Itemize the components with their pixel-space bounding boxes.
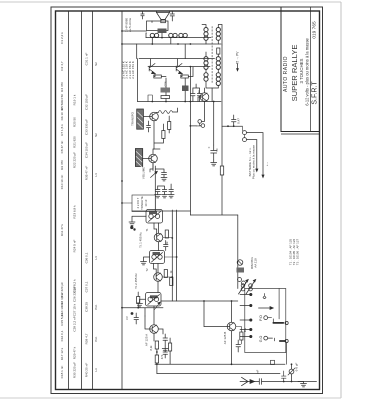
svg-text:C33 330 pF: C33 330 pF: [85, 119, 89, 135]
switch contact PO: [264, 316, 268, 320]
AGC diode D1: [237, 260, 243, 266]
capacitor C9 to ground: [155, 169, 166, 178]
node dots IF buses: [171, 237, 177, 278]
svg-text:R4 50: R4 50: [60, 94, 64, 103]
wire preamp emitter: [150, 163, 153, 172]
svg-text:ou 5 ohms: ou 5 ohms: [128, 17, 132, 32]
svg-text:L4: L4: [94, 173, 98, 177]
switch coil squiggle: [263, 294, 266, 299]
switch terminal GO: [285, 339, 288, 342]
IF can 2: [150, 251, 165, 264]
battery label: [248, 145, 269, 180]
label TI2: [134, 273, 138, 289]
svg-text:6-8 pF: 6-8 pF: [295, 362, 299, 371]
svg-text:AUTO RADIO: AUTO RADIO: [283, 56, 289, 92]
svg-text:T.I.1 455 Kc: T.I.1 455 Kc: [139, 232, 143, 248]
oscillator label: [223, 332, 227, 345]
output transistor Q1: [149, 59, 155, 74]
IF transistor T7: [154, 273, 163, 282]
battery wires: [247, 133, 264, 176]
tuner block outline: [245, 289, 286, 353]
svg-text:C26 220 pF: C26 220 pF: [73, 286, 77, 302]
IF transistor T6: [154, 233, 163, 242]
svg-text:R20 50: R20 50: [73, 117, 77, 127]
wire bus y66.6: [148, 66, 210, 68]
svg-text:C37 0,1: C37 0,1: [85, 281, 89, 292]
svg-text:S2: S2: [94, 62, 98, 66]
AGC junction circles: [238, 278, 242, 282]
transistor list label: [122, 61, 136, 79]
svg-text:C34 100 pF: C34 100 pF: [85, 142, 89, 158]
svg-text:R35 47 nF: R35 47 nF: [85, 166, 89, 181]
wires IF2: [154, 264, 159, 293]
IF bus top joins: [132, 210, 190, 212]
wire emitters join: [154, 67, 193, 77]
coil L5 winding chain: [204, 73, 208, 77]
node dots battery: [227, 125, 235, 127]
emitter resistor squiggle R8: [159, 111, 173, 114]
node dots left bus: [121, 30, 123, 45]
node dots top bus: [151, 37, 191, 45]
ground C6: [211, 160, 217, 166]
svg-text:R24 5 nF: R24 5 nF: [73, 240, 77, 253]
speaker label: [125, 17, 133, 32]
svg-text:R19 1 k: R19 1 k: [73, 94, 77, 105]
wires preamp: [153, 149, 160, 171]
capacitor C7: [191, 88, 195, 102]
wire osc vertical: [203, 301, 205, 327]
svg-text:10 nF: 10 nF: [144, 199, 148, 206]
wire bus y37.6: [146, 37, 211, 39]
svg-text:TRANSFO: TRANSFO: [131, 111, 135, 126]
svg-text:Pot.: Pot.: [94, 304, 98, 310]
parts table column line 3: [92, 11, 94, 390]
border frame inner: [56, 11, 320, 390]
resistor R18: [164, 270, 167, 278]
capacitor C2 at top: [170, 12, 174, 22]
svg-text:R29 47 k: R29 47 k: [73, 346, 77, 359]
svg-text:+ −: + −: [265, 162, 269, 167]
ground C13: [168, 195, 174, 198]
emitter resistor R12: [181, 75, 189, 78]
svg-text:P.O: P.O: [259, 315, 263, 321]
switch bar GO (thick): [280, 340, 285, 342]
svg-text:CV: CV: [125, 316, 129, 320]
svg-text:Pot.: Pot.: [94, 336, 98, 342]
switch terminal PO: [285, 321, 288, 324]
wire to R26: [236, 327, 242, 345]
svg-text:R15 5,6 k: R15 5,6 k: [60, 312, 64, 326]
bias rect (dark): [182, 86, 189, 92]
node dots feedback bus: [151, 101, 214, 103]
node dot: [190, 66, 192, 127]
wire bus y44: [122, 43, 221, 45]
wire driver collector drop: [148, 95, 152, 102]
driver transformer TR3: [137, 109, 144, 129]
series capacitor C33: [259, 379, 261, 385]
svg-text:C27 15 k: C27 15 k: [73, 303, 77, 316]
svg-text:R7 1,5 k: R7 1,5 k: [60, 124, 64, 136]
svg-text:S.F.R.T: S.F.R.T: [312, 81, 319, 105]
AGC vertical: [237, 215, 239, 289]
svg-text:R9 470: R9 470: [60, 160, 64, 170]
wires through thermistor: [165, 78, 167, 102]
coil interstage leads: [206, 40, 218, 56]
PV arrow label: [236, 51, 240, 65]
scan edge bottom: [0, 397, 341, 399]
svg-text:AA 119: AA 119: [254, 258, 258, 268]
svg-text:CTN: CTN: [164, 81, 168, 86]
output transformer TR4 box: [147, 21, 169, 31]
taps to IF buses: [162, 238, 176, 278]
svg-text:Plus ou moins à la masse: Plus ou moins à la masse: [251, 145, 255, 180]
wire battery feed: [222, 125, 242, 127]
svg-text:C1 2,2 k: C1 2,2 k: [60, 32, 64, 44]
trimmer C34: [289, 369, 294, 374]
resistor R21: [137, 297, 140, 304]
coil L6 winding chain: [216, 73, 220, 77]
IF can 3: [146, 293, 162, 307]
wires converter: [145, 306, 163, 341]
base lead T4: [143, 116, 152, 118]
svg-text:R39 4,7: R39 4,7: [85, 333, 89, 344]
wire left drop: [137, 33, 147, 59]
oscillator coil L1 winding chain: [204, 28, 208, 32]
svg-text:R23 6,8 k: R23 6,8 k: [73, 205, 77, 219]
terminal circle P1: [198, 120, 202, 124]
svg-text:6-12 volts - plus ou moins à l: 6-12 volts - plus ou moins à la masse: [305, 37, 310, 105]
tuner inner wires: [279, 289, 287, 365]
junction blob: [130, 226, 136, 231]
output transistor Q2: [176, 59, 182, 74]
wires IF1: [154, 223, 159, 251]
capacitor C8: [197, 88, 201, 102]
parts table column line 4: [121, 11, 123, 390]
node dots converter left: [121, 180, 139, 309]
secondary winding a: [150, 33, 154, 37]
svg-text:R17 12 k: R17 12 k: [60, 347, 64, 360]
transistor list label: [289, 238, 300, 265]
svg-text:2 x AC 153 K: 2 x AC 153 K: [131, 61, 135, 79]
capacitor C24: [163, 349, 168, 359]
wires R24: [169, 338, 171, 364]
svg-text:S2: S2: [94, 133, 98, 137]
svg-text:R40 20 nF: R40 20 nF: [85, 363, 89, 378]
svg-text:C38 25: C38 25: [85, 302, 89, 312]
capacitor C1 at top: [141, 12, 144, 20]
svg-text:C36 0,1: C36 0,1: [85, 252, 89, 263]
ground C11: [162, 195, 168, 198]
battery terminal B1: [243, 131, 247, 135]
svg-text:C8 47 nF: C8 47 nF: [60, 141, 64, 154]
svg-text:C28 2,2 nF: C28 2,2 nF: [73, 316, 77, 331]
wire y307.7: [122, 292, 163, 316]
scan edge right: [340, 2, 342, 398]
svg-text:L3: L3: [94, 368, 98, 372]
wire verticals between buses: [152, 33, 185, 59]
svg-text:C10 10 nF: C10 10 nF: [60, 175, 64, 190]
svg-text:22k: 22k: [243, 327, 247, 332]
wire chains to bus: [211, 88, 213, 102]
wire bus y364: [155, 363, 285, 365]
tone box label: [136, 196, 148, 210]
wire bus y58.6: [139, 58, 215, 60]
thermistor TH1 (hatched): [161, 88, 171, 93]
wires oscillator: [204, 301, 232, 364]
resistor R19: [170, 278, 173, 286]
base lead T5: [143, 158, 152, 160]
svg-text:C32 150 pF: C32 150 pF: [85, 94, 89, 110]
driver transformer label: [131, 111, 135, 126]
scan edge top: [0, 1, 341, 3]
svg-text:R22 220 pF: R22 220 pF: [73, 152, 77, 168]
node dots bias: [156, 351, 158, 365]
ground C23: [162, 346, 168, 352]
secondary winding b: [169, 33, 173, 37]
IF bus vertical a: [171, 210, 173, 301]
AGC label: [250, 257, 258, 270]
volume label: [142, 167, 146, 179]
svg-text:R3 470: R3 470: [60, 82, 64, 92]
capacitor C12: [147, 121, 151, 132]
battery terminal leads: [242, 126, 244, 137]
oscillator coil L2 winding chain: [216, 28, 220, 32]
svg-text:C31 1 nF: C31 1 nF: [85, 53, 89, 66]
coil top leads: [202, 25, 222, 46]
misc tiny labels: [125, 81, 260, 374]
wires bias rect: [184, 78, 186, 102]
resistor R14: [217, 48, 220, 54]
svg-text:0,47: 0,47: [237, 118, 241, 124]
electrolytic C6: [211, 145, 217, 160]
wire to terminals: [190, 125, 196, 127]
resistor R13: [161, 96, 170, 99]
label GO: [259, 336, 263, 343]
ground C9: [161, 178, 167, 181]
svg-text:C2 4,7: C2 4,7: [60, 61, 64, 70]
svg-text:C16 0,1: C16 0,1: [60, 330, 64, 341]
mixer transistor T3: [200, 93, 209, 102]
wafer contact stubs: [240, 293, 252, 337]
wire bus y373.6: [157, 373, 280, 375]
wire speaker return: [122, 30, 147, 32]
supply vertical x222 lower: [190, 175, 237, 215]
switch contact GO: [264, 336, 268, 340]
junction blob2: [131, 312, 134, 315]
wires driver stage: [154, 116, 169, 149]
wire long vertical feed: [189, 67, 191, 215]
parts table column line 2: [81, 11, 83, 390]
svg-text:R21 820: R21 820: [73, 136, 77, 148]
coil core dashed: [211, 27, 213, 85]
wire speaker to transformer: [152, 20, 161, 23]
capacitor C10 to ground: [156, 186, 161, 195]
converter label: [145, 334, 149, 346]
switch arm wire: [259, 307, 272, 309]
wire caps top tie: [193, 84, 200, 88]
coil L4 winding chain: [216, 57, 220, 61]
wire electrolytic feed: [213, 102, 215, 146]
resistor R15: [220, 166, 223, 175]
ground IF1: [129, 216, 146, 225]
capacitor C13 to ground: [169, 184, 174, 195]
wires mixer T3: [198, 88, 205, 121]
svg-text:G.O: G.O: [259, 336, 263, 343]
svg-text:3 TOUCHES: 3 TOUCHES: [299, 58, 304, 83]
svg-text:AF 125 B: AF 125 B: [223, 332, 227, 345]
resistor R22: [155, 341, 158, 349]
parts table column line 1: [68, 11, 70, 390]
driver transistor T4: [150, 112, 159, 121]
antenna symbol: [240, 377, 248, 385]
svg-text:SUPER RALLYE: SUPER RALLYE: [290, 45, 299, 102]
resistor R10: [168, 122, 171, 130]
node dots osc: [203, 300, 232, 365]
converter transistor T8: [150, 325, 159, 334]
terminal circle P2: [201, 124, 205, 128]
volume potentiometer R5: [154, 166, 156, 212]
resistor R9: [162, 131, 165, 139]
svg-text:T3 . 10106 . AF 127: T3 . 10106 . AF 127: [296, 238, 300, 265]
wire bus y301: [161, 300, 238, 302]
capacitor C11 to ground: [158, 186, 167, 195]
speaker LS1: [157, 13, 170, 20]
supply vertical x222 upper: [221, 45, 223, 166]
ground IF2: [141, 257, 150, 265]
wires bias chain: [156, 349, 158, 374]
switch bar PO (thick): [273, 322, 283, 324]
svg-text:AF 125 A: AF 125 A: [145, 334, 149, 346]
IF bus vertical b: [176, 210, 178, 301]
wire x122 tap: [122, 202, 132, 204]
svg-text:1nF: 1nF: [256, 369, 260, 374]
antenna wire: [248, 381, 317, 383]
ground IF3: [137, 299, 146, 307]
svg-text:8,2k: 8,2k: [149, 345, 153, 351]
oscillator transistor T9: [227, 322, 236, 331]
svg-text:T.I.2 455 Kc: T.I.2 455 Kc: [134, 273, 138, 289]
resistor R16: [165, 230, 168, 238]
title block frame: [281, 7, 320, 134]
tone control box: [132, 195, 155, 212]
svg-text:L4: L4: [94, 256, 98, 260]
coil bottom leads: [206, 69, 218, 88]
svg-text:45 → PV: 45 → PV: [236, 51, 240, 65]
wire bus y101.5: [138, 101, 222, 103]
IF can 1: [146, 210, 163, 224]
tuning arrow can3: [155, 303, 160, 310]
svg-text:R6 10 nF: R6 10 nF: [60, 108, 64, 121]
resistor R30: [271, 360, 275, 364]
svg-text:+: +: [208, 146, 210, 150]
svg-text:019 765: 019 765: [312, 21, 318, 39]
ground C10: [155, 195, 161, 198]
AGC hatched box: [237, 268, 245, 273]
svg-text:R11 47 k: R11 47 k: [60, 223, 64, 236]
label PO: [259, 315, 263, 321]
border frame outer: [51, 7, 323, 394]
emitter resistor R11: [154, 75, 162, 78]
node dots antenna: [283, 363, 293, 382]
label TI1: [139, 232, 143, 248]
label 6-8 pF: [295, 362, 299, 371]
capacitor C5 0.47uF: [232, 115, 237, 126]
svg-text:R30 220 pF: R30 220 pF: [73, 362, 77, 378]
osc tuning coil L7: [241, 284, 245, 288]
capacitor C16: [164, 241, 169, 251]
resistor R26: [240, 332, 243, 340]
capacitor C27: [236, 340, 241, 352]
coil L3 winding chain: [204, 57, 208, 61]
preamp transistor T5: [149, 154, 158, 163]
resistor R23: [155, 355, 158, 363]
secondary winding c: [179, 33, 183, 37]
wire left drop to bus: [137, 59, 139, 102]
preamp transformer TR2: [135, 149, 142, 167]
capacitor C23: [163, 334, 168, 346]
capacitor C22: [134, 313, 139, 324]
battery terminal B2: [243, 138, 247, 142]
output transformer winding (hatched): [158, 29, 167, 34]
svg-text:C18 1 nF: C18 1 nF: [60, 366, 64, 379]
svg-text:470: 470: [160, 354, 164, 359]
resistor R24: [169, 343, 172, 351]
capacitor C35: [282, 371, 287, 382]
svg-text:VOLUME: VOLUME: [142, 167, 146, 179]
osc tuning coil L8: [249, 284, 253, 288]
ground antenna: [301, 382, 307, 387]
